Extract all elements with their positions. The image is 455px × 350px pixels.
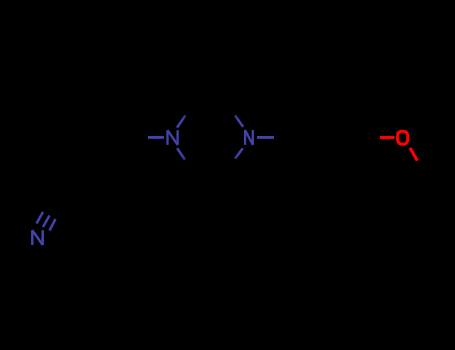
bond phenyl-O (horizontal stub) <box>380 136 395 139</box>
benzene ring (invisible) <box>281 108 365 166</box>
atom label N2 (piperazine right nitrogen) <box>245 130 253 145</box>
invisible carbon skeleton (black on black): butanenitrile chain, piperazine and benzene carbons <box>53 108 437 208</box>
bond N2-phenyl (horizontal stub) <box>257 136 274 139</box>
atom label N1 (piperazine left nitrogen) <box>168 130 178 145</box>
nitrile group: triple bond C#N (blue halves) <box>37 212 56 231</box>
bond N1-C4 chain (horizontal stub) <box>148 136 164 139</box>
bond N2 ring up-left stub <box>235 115 243 127</box>
atom label N (nitrile nitrogen) <box>32 230 42 245</box>
triple bond line 2 <box>43 216 50 228</box>
piperazine N1 bonds (blue halves) <box>148 115 185 159</box>
triple bond line 1 <box>37 212 44 224</box>
methyl bond half (invisible) <box>418 161 437 171</box>
wire C2-C3 (chain) <box>86 166 112 201</box>
bond N1 ring down-right stub <box>177 148 185 160</box>
wire C1-C2 (chain) <box>53 201 86 208</box>
piperazine carbons (invisible) <box>188 108 231 166</box>
bond N2 ring down-left stub <box>235 148 243 159</box>
wire C3-C4 (chain) <box>112 137 145 166</box>
bond N1 ring up-right stub <box>177 115 185 127</box>
atom label O (methoxy oxygen) <box>398 131 408 144</box>
methoxy O bonds (red halves) <box>380 137 417 160</box>
piperazine N2 bonds (blue halves) <box>235 115 274 158</box>
triple bond line 3 <box>50 219 56 231</box>
bond O-CH3 (diagonal stub) <box>410 148 417 161</box>
